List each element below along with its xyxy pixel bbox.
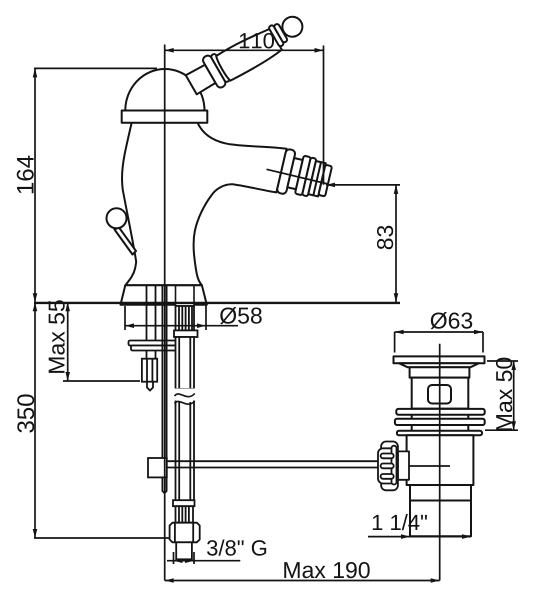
- nut facet lines: [174, 523, 176, 543]
- dim 83: [326, 183, 400, 303]
- drain neck: [410, 367, 470, 377]
- handle flange band 1: [202, 54, 227, 89]
- stud through nut: [146, 359, 148, 382]
- drain plate 1: [396, 409, 484, 415]
- handle group (rotated -30deg), origin at flange outer face center: [182, 6, 309, 100]
- drain tail band: [410, 485, 471, 501]
- side lever arm: [107, 208, 137, 254]
- label 3/8" G: [207, 540, 266, 556]
- knurled knob front: [378, 448, 396, 483]
- label Max 55 (rotated): [49, 300, 65, 373]
- knob slot 1: [381, 454, 394, 459]
- supply pipe thread lower: [176, 506, 194, 523]
- dim Max50: [485, 361, 518, 430]
- supply pipe tube lower: [176, 401, 195, 501]
- dim 164/350 vertical line: [33, 68, 170, 538]
- pop-up rod upper: [161, 286, 163, 459]
- drain tail tube: [410, 501, 471, 537]
- supply pipe top section: [176, 286, 195, 307]
- drain square hole: [428, 385, 451, 404]
- label Max 190: [284, 562, 369, 578]
- spout axis line: [267, 169, 329, 184]
- stud tip: [147, 382, 153, 391]
- spout ring 2: [295, 156, 311, 196]
- knurled knob connector: [398, 451, 409, 479]
- drain centerline: [439, 344, 441, 581]
- knob slot 3: [381, 474, 394, 479]
- dim 1 1/4: [368, 534, 471, 539]
- label 1 1/4": [373, 514, 427, 530]
- dim D63: [395, 330, 483, 353]
- spout ring 1: [276, 149, 295, 195]
- base skirt: [121, 285, 207, 304]
- mounting stud: [147, 286, 156, 359]
- spout neck: [287, 158, 302, 189]
- pipe break symbol: [174, 389, 195, 405]
- label Ø63: [431, 312, 473, 329]
- supply pipe tube upper: [176, 337, 195, 389]
- handle lever body: [215, 26, 283, 82]
- handle stub: [186, 64, 216, 94]
- dome: [125, 69, 204, 111]
- wall between plates 2-3: [411, 425, 413, 431]
- mounting plate 1: [129, 341, 187, 346]
- drain flange: [394, 356, 485, 363]
- knob slot 2: [381, 464, 394, 469]
- dim 110 line: [165, 46, 324, 185]
- countertop reference line: [34, 302, 400, 304]
- knob vertical pill: [392, 446, 397, 485]
- label 350 (rotated): [17, 394, 34, 432]
- mounting nut: [142, 359, 157, 382]
- drain flange lip: [399, 363, 479, 367]
- drain plate 2: [395, 419, 485, 425]
- aerator end cap: [318, 165, 332, 197]
- label 110: [240, 33, 274, 49]
- drain pivot rod inside: [409, 465, 450, 467]
- dim D58: [125, 304, 238, 330]
- side lever ball: [107, 208, 127, 228]
- pop-up rod lower tip: [162, 477, 166, 493]
- aerator body: [308, 161, 325, 196]
- supply pipe collar: [173, 500, 195, 506]
- label Max 50 (rotated): [496, 358, 512, 431]
- aerator facet line: [313, 162, 321, 195]
- supply pipe thread upper: [176, 306, 195, 330]
- handle ball: [279, 13, 306, 40]
- dim 3/8 G: [167, 552, 240, 564]
- faucet body outline: [122, 123, 287, 286]
- drain tail upper: [407, 435, 474, 485]
- collar: [122, 111, 208, 123]
- label 83 (rotated): [377, 226, 393, 250]
- faucet centerline: [164, 45, 166, 581]
- handle tip ring 2: [273, 23, 288, 43]
- dim Max190: [165, 578, 440, 583]
- horizontal drain rod: [167, 461, 378, 467]
- handle tip ring 1: [268, 24, 284, 47]
- handle flange band 2: [210, 53, 230, 83]
- connection nut 3/8: [170, 523, 200, 543]
- drain body: [412, 378, 469, 409]
- pipe end stub: [176, 542, 192, 559]
- mounting plate 2: [131, 346, 184, 351]
- label Ø58: [220, 307, 262, 324]
- label 164 (rotated): [17, 156, 34, 194]
- knurled knob back: [381, 442, 398, 491]
- wall between plates: [411, 415, 413, 419]
- clevis block: [148, 458, 167, 477]
- dim Max55: [63, 302, 140, 381]
- supply pipe ring: [174, 330, 198, 337]
- spout ring 3: [302, 157, 316, 196]
- drain plate 3: [397, 431, 482, 436]
